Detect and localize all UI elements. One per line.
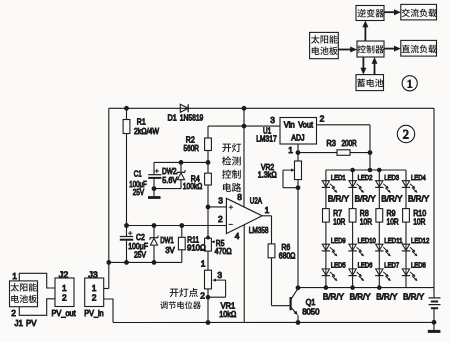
- svg-text:8050: 8050: [302, 307, 320, 317]
- LED LED1: [322, 181, 329, 187]
- zener diode DW2 5.6V: [180, 162, 182, 172]
- svg-text:2: 2: [403, 128, 409, 142]
- ground symbol at C1: [153, 189, 155, 197]
- svg-text:D1: D1: [168, 113, 178, 123]
- figure-1 arrow controller to DC load: [384, 48, 395, 50]
- wire LED to resistor col3: [378, 187, 380, 208]
- label turn-on point potentiometer 开灯点调节电位器: [170, 289, 179, 297]
- wire LED bottom bus: [298, 287, 434, 289]
- figure-1 arrow controller to battery: [362, 57, 364, 70]
- node junction VR1 wiper: [206, 295, 211, 300]
- wire J1 pin2 to J2: [19, 299, 55, 316]
- svg-text:LED11: LED11: [384, 237, 402, 245]
- node junction top bus col3: [377, 168, 382, 173]
- resistor R1: [126, 108, 128, 119]
- svg-text:LED5: LED5: [331, 262, 346, 270]
- resistor R7 10R: [323, 209, 330, 223]
- wire column 2 upper stub: [352, 170, 354, 181]
- node junction VR2 bottom: [296, 185, 301, 190]
- wire column 3 upper stub: [378, 170, 380, 181]
- node junction battery bottom: [432, 320, 437, 325]
- LED LED7: [376, 269, 383, 275]
- node junction R3 right: [368, 150, 373, 155]
- node junction ADJ: [296, 150, 301, 155]
- LED LED2: [349, 181, 356, 187]
- figure-1 block: DC load box 直流负载: [401, 40, 437, 56]
- wire LED row2 to row3 col3: [378, 251, 380, 269]
- wire op-amp output: [262, 215, 271, 217]
- resistor R10 10R: [403, 209, 410, 223]
- svg-text:J1: J1: [15, 318, 24, 328]
- node junction bottom bus col3: [377, 285, 382, 290]
- figure-1 arrow solar to controller: [338, 49, 351, 51]
- svg-text:1: 1: [288, 145, 293, 155]
- svg-text:470Ω: 470Ω: [215, 246, 232, 256]
- wire left border rail: [108, 108, 110, 288]
- wire bottom ground rail: [113, 321, 434, 323]
- label detect control circuit 开灯检测控制电路: [222, 144, 231, 153]
- wire resistor to LED row2 col3: [378, 222, 380, 244]
- svg-text:LED9: LED9: [331, 237, 346, 245]
- integrated circuit U1 LM317 box: [280, 118, 317, 145]
- svg-text:2: 2: [200, 290, 205, 300]
- resistor R8 10R: [349, 209, 356, 223]
- svg-text:DW1: DW1: [160, 235, 174, 245]
- LED LED3: [376, 181, 383, 187]
- svg-text:1N5819: 1N5819: [180, 113, 204, 123]
- svg-text:2: 2: [62, 293, 67, 303]
- diode D1 1N5819: [180, 104, 188, 112]
- svg-text:3V: 3V: [165, 245, 175, 255]
- connector J2 PV_out: [55, 278, 74, 307]
- wire lower reference bus: [109, 261, 182, 263]
- svg-text:1: 1: [201, 258, 206, 268]
- figure-1 block: AC load box 交流负载: [401, 4, 437, 20]
- svg-text:LED1: LED1: [331, 174, 346, 182]
- LED LED5: [322, 269, 329, 275]
- ground symbol at battery: [433, 322, 435, 330]
- resistor R9 10R: [376, 209, 383, 223]
- svg-text:1: 1: [92, 283, 97, 293]
- wire LED row3 to bottom bus col1: [325, 276, 327, 288]
- svg-text:B/R/Y: B/R/Y: [355, 193, 376, 203]
- wire to op-amp noninverting input: [208, 206, 226, 208]
- svg-text:LED8: LED8: [411, 262, 426, 270]
- wire LM317 Vout lead: [317, 124, 371, 126]
- LED LED10: [349, 244, 356, 250]
- wire J3 pin2 to ground rail: [104, 299, 113, 323]
- node junction bottom bus col1: [324, 285, 329, 290]
- wire resistor to LED row2 col2: [352, 222, 354, 244]
- wire resistor to LED row2 col1: [325, 222, 327, 244]
- wire LED row3 to bottom bus col3: [378, 276, 380, 288]
- wire LED row2 to row3 col1: [325, 251, 327, 269]
- svg-text:1: 1: [12, 271, 17, 281]
- svg-text:PV_out: PV_out: [52, 309, 77, 318]
- wire LED row3 to bottom bus col4: [405, 276, 407, 288]
- svg-text:J3: J3: [88, 269, 98, 279]
- node junction R5 top: [206, 236, 210, 240]
- svg-text:5.6V: 5.6V: [162, 175, 177, 185]
- resistor R6 680: [271, 216, 273, 244]
- node junction lower bus C2: [124, 260, 129, 265]
- node junction C1 bottom: [152, 186, 157, 191]
- svg-text:LED2: LED2: [358, 174, 373, 182]
- node junction top bus feed: [368, 168, 373, 173]
- svg-text:25V: 25V: [134, 250, 146, 260]
- svg-text:LED4: LED4: [411, 174, 426, 182]
- svg-text:10R: 10R: [333, 217, 345, 227]
- LED LED11: [376, 244, 383, 250]
- node junction bus at C2: [124, 223, 129, 228]
- capacitor C2 100uF: [126, 226, 128, 237]
- wire resistor to LED row2 col4: [405, 222, 407, 244]
- resistor R11 910: [181, 226, 183, 238]
- wire right rail to battery: [433, 108, 435, 297]
- figure-1 arrow inverter to AC load: [384, 11, 395, 13]
- svg-text:1: 1: [265, 205, 270, 215]
- wire J1 pin1 to J2: [19, 273, 55, 288]
- wire LM317 ADJ lead: [297, 144, 299, 153]
- svg-text:1.3kΩ: 1.3kΩ: [258, 170, 277, 180]
- svg-text:LED3: LED3: [384, 174, 399, 182]
- svg-text:4: 4: [235, 231, 240, 241]
- svg-text:ADJ: ADJ: [291, 133, 304, 142]
- svg-text:B/R/Y: B/R/Y: [350, 292, 371, 302]
- LED LED12: [402, 244, 409, 250]
- zener diode DW1 3V: [153, 226, 155, 238]
- wire to LM317 Vin: [208, 125, 280, 127]
- capacitor C1 100uF: [153, 162, 155, 174]
- resistor R3 200R: [298, 152, 337, 154]
- wire VR1 to ground rail: [207, 297, 209, 322]
- wire column 4 upper stub: [405, 170, 407, 181]
- svg-text:1: 1: [407, 79, 413, 91]
- wire inverting input bus: [127, 225, 227, 227]
- svg-text:LM358: LM358: [249, 225, 269, 235]
- node junction op-amp pin3: [206, 205, 211, 210]
- svg-text:680Ω: 680Ω: [279, 250, 296, 260]
- wire LED to resistor col2: [352, 187, 354, 208]
- svg-text:2: 2: [218, 214, 223, 224]
- wire C1 to DW2 bottom: [154, 188, 181, 190]
- resistor R2 560R: [207, 126, 209, 138]
- wire column 1 upper stub: [325, 170, 327, 181]
- svg-text:100kΩ: 100kΩ: [183, 181, 203, 191]
- wire op-amp pin4 ground line: [243, 225, 245, 323]
- node junction R2-R4-DW2: [206, 160, 211, 165]
- svg-text:10R: 10R: [387, 217, 399, 227]
- wire R6 to Q1 base: [272, 305, 291, 307]
- LED LED8: [402, 269, 409, 275]
- svg-text:10kΩ: 10kΩ: [219, 309, 236, 319]
- figure-1 block: inverter box 逆变器: [356, 6, 384, 21]
- LED LED9: [322, 244, 329, 250]
- wire LED row2 to row3 col4: [405, 251, 407, 269]
- svg-text:2: 2: [11, 308, 16, 318]
- label R5 with arrow: [212, 241, 215, 243]
- transistor Q1 8050: [290, 297, 292, 310]
- svg-text:10R: 10R: [413, 217, 425, 227]
- figure-1 label circled 1: [402, 76, 417, 91]
- svg-text:B/R/Y: B/R/Y: [381, 193, 402, 203]
- svg-text:LED6: LED6: [358, 262, 373, 270]
- node junction bus at DW1: [152, 223, 157, 228]
- svg-text:B/R/Y: B/R/Y: [408, 193, 429, 203]
- node junction DW2 top: [179, 160, 184, 165]
- svg-text:C1: C1: [134, 168, 142, 178]
- svg-text:3: 3: [218, 196, 223, 206]
- node junction bottom rail VR1: [206, 320, 211, 325]
- svg-text:Q1: Q1: [306, 297, 316, 307]
- label circled 2: [397, 125, 414, 142]
- battery BT1: [429, 297, 441, 299]
- svg-text:2: 2: [92, 293, 97, 303]
- svg-text:10R: 10R: [360, 217, 372, 227]
- node junction bottom rail Q1: [296, 320, 301, 325]
- wire LED to resistor col1: [325, 187, 327, 208]
- node junction bottom bus Q1 collector: [296, 285, 301, 290]
- svg-text:LED12: LED12: [411, 237, 429, 245]
- svg-text:U2A: U2A: [250, 195, 263, 205]
- svg-text:LM317: LM317: [256, 134, 277, 143]
- svg-text:2kΩ/4W: 2kΩ/4W: [134, 126, 159, 136]
- node junction Vin wire: [242, 124, 247, 129]
- wire reference node: [154, 161, 208, 163]
- svg-text:LED10: LED10: [358, 237, 376, 245]
- svg-text:200R: 200R: [342, 138, 357, 148]
- figure-1 block: controller box 控制器: [357, 41, 384, 57]
- connector J1 solar panel box 太阳能电池板: [10, 281, 38, 307]
- node junction bus at R11: [179, 223, 184, 228]
- svg-text:25V: 25V: [133, 187, 145, 197]
- svg-text:B/R/Y: B/R/Y: [323, 292, 344, 302]
- svg-text:910Ω: 910Ω: [187, 243, 206, 253]
- svg-text:B/R/Y: B/R/Y: [403, 292, 424, 302]
- svg-text:Vout: Vout: [298, 121, 313, 130]
- svg-text:PV: PV: [26, 318, 37, 328]
- node junction top rail at U2A supply: [242, 106, 247, 111]
- svg-text:PV_in: PV_in: [84, 309, 104, 318]
- svg-text:Vin: Vin: [284, 121, 295, 130]
- LED LED4: [402, 181, 409, 187]
- node junction top bus col2: [350, 168, 355, 173]
- op-amp U2A LM358 triangle: [226, 198, 262, 233]
- figure-1 arrow controller to inverter: [364, 26, 366, 41]
- svg-text:2: 2: [320, 114, 325, 124]
- svg-text:R1: R1: [137, 117, 146, 127]
- potentiometer VR2 1.3k: [297, 153, 299, 161]
- node junction top rail at R1: [124, 106, 129, 111]
- svg-text:3: 3: [270, 115, 275, 125]
- wire feed to LED bus: [369, 153, 371, 170]
- figure-1 arrow battery to controller: [374, 62, 376, 75]
- wire VR2 to Q1 collector: [297, 188, 299, 288]
- figure-1 block: solar panel box 太阳能电池板: [310, 32, 339, 58]
- resistor R4 100k: [207, 162, 209, 173]
- svg-text:3: 3: [217, 270, 222, 280]
- wire LED top bus: [326, 169, 406, 171]
- figure-1 block: battery box 蓄电池: [356, 75, 384, 91]
- node junction lower bus DW1: [152, 260, 157, 265]
- node junction bottom bus col2: [350, 285, 355, 290]
- svg-text:LED7: LED7: [384, 262, 399, 270]
- svg-text:1: 1: [62, 283, 67, 293]
- wire J3 pin1 to left rail: [104, 288, 109, 290]
- wire op-amp pin8 supply line: [243, 108, 245, 207]
- connector J3 PV_in: [85, 278, 104, 307]
- potentiometer VR1 10k: [205, 270, 212, 289]
- svg-text:B/R/Y: B/R/Y: [376, 292, 397, 302]
- svg-text:8: 8: [237, 192, 242, 202]
- node junction lower bus left border: [106, 260, 111, 265]
- svg-text:J2: J2: [59, 269, 69, 279]
- svg-text:B/R/Y: B/R/Y: [328, 193, 349, 203]
- wire top positive rail: [109, 107, 434, 109]
- LED LED6: [349, 269, 356, 275]
- wire LED row2 to row3 col2: [352, 251, 354, 269]
- svg-text:560R: 560R: [184, 143, 200, 153]
- wire LED row3 to bottom bus col2: [352, 276, 354, 288]
- svg-text:R3: R3: [326, 138, 336, 148]
- wire LED to resistor col4: [405, 187, 407, 208]
- resistor R5 470: [205, 238, 212, 251]
